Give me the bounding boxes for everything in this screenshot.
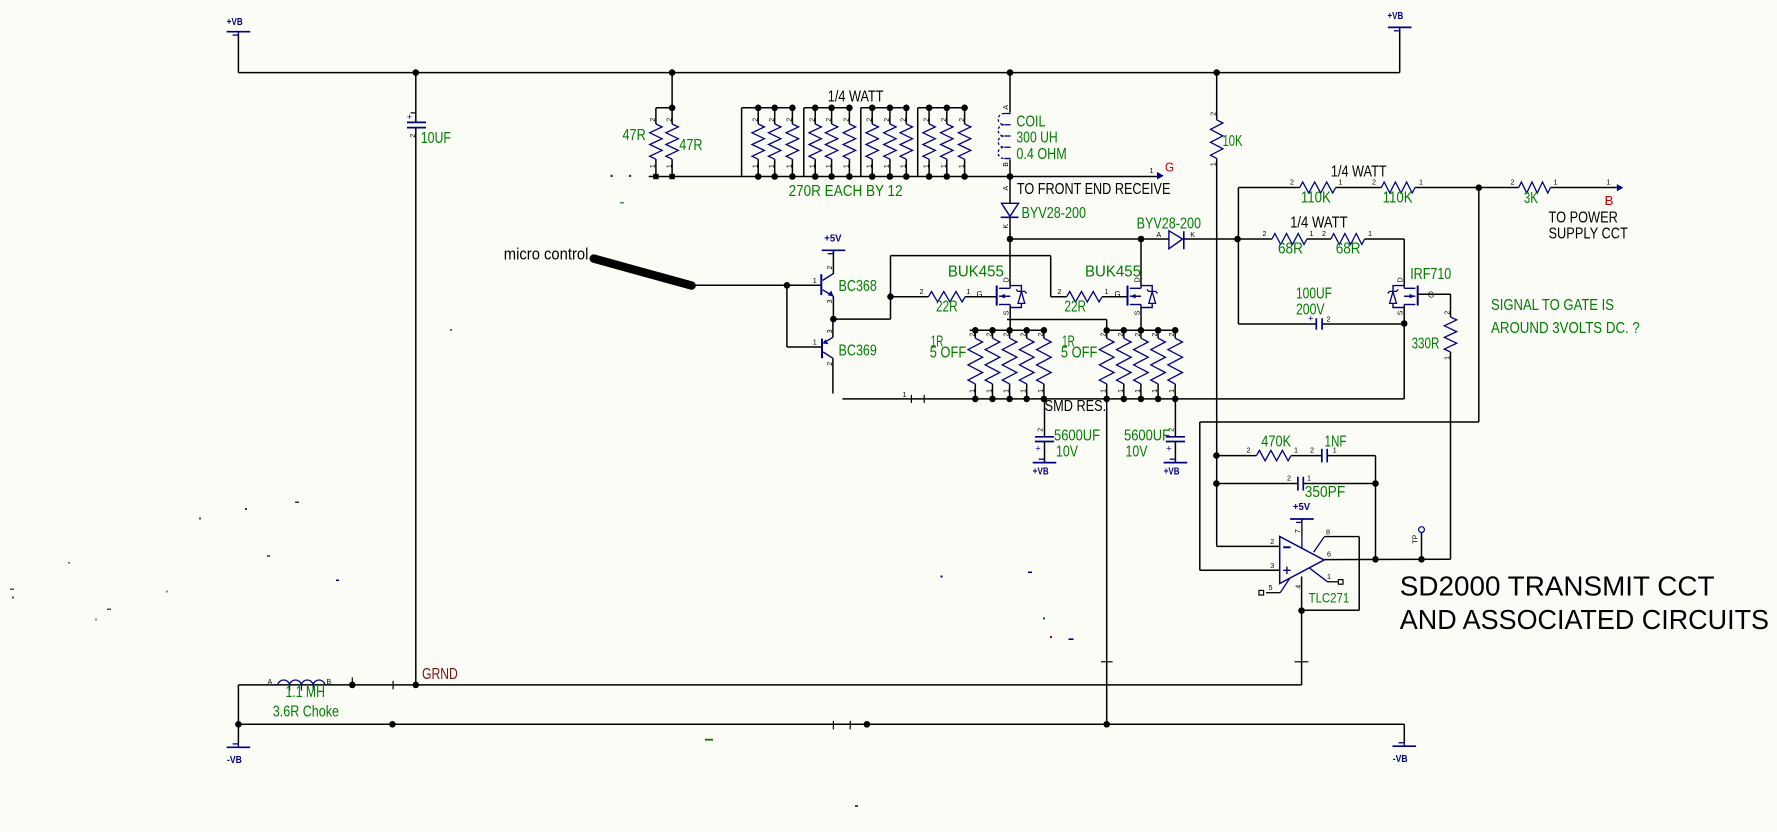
svg-text:2: 2 <box>1247 446 1251 455</box>
svg-text:1/4 WATT: 1/4 WATT <box>1331 164 1387 181</box>
svg-text:+VB: +VB <box>227 16 243 28</box>
svg-text:COIL: COIL <box>1016 114 1045 131</box>
svg-text:2: 2 <box>809 118 816 122</box>
svg-text:47R: 47R <box>679 137 702 154</box>
svg-text:AND ASSOCIATED CIRCUITS: AND ASSOCIATED CIRCUITS <box>1400 604 1769 635</box>
svg-text:1: 1 <box>666 164 673 168</box>
svg-text:3: 3 <box>827 299 834 303</box>
svg-text:1: 1 <box>752 164 759 168</box>
svg-text:+5V: +5V <box>824 233 841 245</box>
svg-text:2: 2 <box>1445 311 1452 315</box>
svg-text:2: 2 <box>1290 178 1294 187</box>
svg-text:3: 3 <box>827 329 834 333</box>
svg-text:110K: 110K <box>1301 190 1332 207</box>
svg-text:1.1 MH: 1.1 MH <box>286 684 325 701</box>
svg-text:TO FRONT END RECEIVE: TO FRONT END RECEIVE <box>1017 181 1171 198</box>
svg-text:1: 1 <box>650 164 657 168</box>
svg-text:1NF: 1NF <box>1325 434 1347 451</box>
svg-text:110K: 110K <box>1383 190 1414 207</box>
svg-text:10V: 10V <box>1126 444 1149 461</box>
svg-text:1: 1 <box>1419 178 1423 187</box>
svg-text:1: 1 <box>1038 389 1045 393</box>
svg-text:1: 1 <box>1211 162 1218 166</box>
svg-text:1: 1 <box>844 164 851 168</box>
svg-text:0.4 OHM: 0.4 OHM <box>1016 146 1066 163</box>
svg-text:2: 2 <box>650 118 657 122</box>
svg-text:1: 1 <box>1294 446 1298 455</box>
svg-text:1: 1 <box>1118 389 1125 393</box>
svg-text:2: 2 <box>959 118 966 122</box>
svg-text:2: 2 <box>920 287 924 296</box>
svg-text:3: 3 <box>1270 561 1274 570</box>
svg-text:1: 1 <box>1307 474 1311 483</box>
svg-text:2: 2 <box>941 118 948 122</box>
svg-text:IRF710: IRF710 <box>1410 266 1451 283</box>
svg-text:+VB: +VB <box>1164 465 1180 477</box>
svg-text:1: 1 <box>987 389 994 393</box>
svg-text:68R: 68R <box>1278 241 1303 258</box>
svg-text:SMD RES.: SMD RES. <box>1045 398 1107 415</box>
svg-text:1: 1 <box>1368 229 1372 238</box>
svg-text:1: 1 <box>866 164 873 168</box>
svg-text:200V: 200V <box>1296 302 1325 319</box>
svg-text:2: 2 <box>1511 178 1515 187</box>
svg-text:2: 2 <box>752 118 759 122</box>
svg-text:8: 8 <box>1326 527 1330 536</box>
svg-text:1: 1 <box>967 287 971 296</box>
svg-text:+5V: +5V <box>1293 501 1310 513</box>
svg-text:2: 2 <box>901 118 908 122</box>
svg-text:B: B <box>327 679 332 686</box>
svg-text:-VB: -VB <box>227 754 242 766</box>
svg-text:270R EACH BY 12: 270R EACH BY 12 <box>789 183 903 200</box>
svg-text:D: D <box>1004 277 1011 282</box>
svg-text:1: 1 <box>787 164 794 168</box>
svg-text:D: D <box>1398 277 1405 282</box>
svg-text:-VB: -VB <box>1393 753 1408 765</box>
svg-text:2: 2 <box>866 118 873 122</box>
svg-text:1: 1 <box>901 164 908 168</box>
svg-text:300 UH: 300 UH <box>1016 130 1057 147</box>
svg-text:1/4 WATT: 1/4 WATT <box>1290 215 1348 232</box>
svg-text:G: G <box>1115 290 1121 299</box>
svg-text:1: 1 <box>813 338 817 347</box>
svg-text:5: 5 <box>1269 583 1273 592</box>
svg-text:10UF: 10UF <box>421 130 451 147</box>
svg-text:AROUND 3VOLTS DC. ?: AROUND 3VOLTS DC. ? <box>1491 320 1640 337</box>
svg-text:1: 1 <box>1021 389 1028 393</box>
svg-text:BUK455: BUK455 <box>1085 264 1141 281</box>
svg-text:SUPPLY CCT: SUPPLY CCT <box>1549 226 1629 243</box>
svg-text:1: 1 <box>1554 178 1558 187</box>
svg-text:A: A <box>1003 186 1010 191</box>
svg-text:4: 4 <box>1295 585 1302 589</box>
svg-text:2: 2 <box>769 118 776 122</box>
svg-text:1: 1 <box>941 164 948 168</box>
svg-text:1: 1 <box>1101 389 1108 393</box>
svg-text:BYV28-200: BYV28-200 <box>1137 215 1202 232</box>
svg-text:+: + <box>1166 443 1172 454</box>
svg-text:SD2000 TRANSMIT CCT: SD2000 TRANSMIT CCT <box>1400 571 1715 602</box>
svg-text:3.6R Choke: 3.6R Choke <box>273 704 339 721</box>
svg-text:TO POWER: TO POWER <box>1549 210 1618 227</box>
svg-text:TP: TP <box>1413 534 1420 543</box>
svg-text:2: 2 <box>923 118 930 122</box>
svg-text:2: 2 <box>787 118 794 122</box>
svg-text:G: G <box>1165 160 1174 175</box>
svg-text:2: 2 <box>1263 229 1267 238</box>
svg-text:SIGNAL TO GATE IS: SIGNAL TO GATE IS <box>1491 297 1614 314</box>
svg-text:1: 1 <box>826 164 833 168</box>
svg-text:10K: 10K <box>1223 133 1243 150</box>
svg-text:1: 1 <box>959 164 966 168</box>
svg-text:2: 2 <box>1038 428 1045 432</box>
svg-text:47R: 47R <box>623 127 646 144</box>
svg-text:A: A <box>268 679 273 686</box>
svg-text:1: 1 <box>809 164 816 168</box>
svg-text:100UF: 100UF <box>1296 286 1332 303</box>
svg-text:B: B <box>1605 193 1614 208</box>
svg-text:350PF: 350PF <box>1305 484 1345 501</box>
svg-text:BUK455: BUK455 <box>948 264 1004 281</box>
svg-text:1: 1 <box>1327 572 1331 581</box>
svg-text:68R: 68R <box>1336 241 1361 258</box>
svg-text:TLC271: TLC271 <box>1309 590 1350 606</box>
svg-text:GRND: GRND <box>422 666 458 683</box>
svg-text:1: 1 <box>813 276 817 285</box>
svg-text:1: 1 <box>923 164 930 168</box>
svg-text:7: 7 <box>1293 529 1302 533</box>
svg-text:2: 2 <box>410 134 417 138</box>
svg-text:2: 2 <box>884 118 891 122</box>
svg-text:3K: 3K <box>1524 190 1538 207</box>
svg-text:+VB: +VB <box>1033 465 1049 477</box>
svg-text:2: 2 <box>826 118 833 122</box>
svg-text:1: 1 <box>1004 389 1011 393</box>
svg-text:10V: 10V <box>1056 444 1079 461</box>
svg-text:+: + <box>1035 443 1041 454</box>
svg-text:+VB: +VB <box>1388 10 1404 22</box>
svg-text:B: B <box>1003 162 1010 167</box>
svg-text:470K: 470K <box>1261 434 1291 451</box>
svg-text:1: 1 <box>1150 166 1154 175</box>
svg-text:330R: 330R <box>1412 336 1440 353</box>
svg-text:1: 1 <box>769 164 776 168</box>
svg-text:5 OFF: 5 OFF <box>930 345 967 362</box>
svg-text:6: 6 <box>1327 550 1331 559</box>
svg-text:2: 2 <box>827 362 834 366</box>
svg-text:2: 2 <box>1327 315 1331 324</box>
svg-text:1/4 WATT: 1/4 WATT <box>828 88 884 105</box>
svg-text:2: 2 <box>1270 537 1274 546</box>
svg-text:5600UF: 5600UF <box>1124 428 1170 445</box>
svg-text:BC369: BC369 <box>839 343 877 360</box>
svg-text:2: 2 <box>844 118 851 122</box>
svg-text:1: 1 <box>1607 178 1611 187</box>
svg-text:1: 1 <box>969 389 976 393</box>
svg-text:2: 2 <box>1310 446 1314 455</box>
svg-text:1: 1 <box>1169 389 1176 393</box>
svg-text:2: 2 <box>666 118 673 122</box>
svg-text:22R: 22R <box>1064 299 1086 316</box>
svg-text:1: 1 <box>1105 287 1109 296</box>
svg-text:1: 1 <box>1152 389 1159 393</box>
svg-text:2: 2 <box>1211 112 1218 116</box>
svg-text:5600UF: 5600UF <box>1054 428 1100 445</box>
svg-text:5 OFF: 5 OFF <box>1061 345 1098 362</box>
svg-text:1: 1 <box>1445 356 1452 360</box>
svg-text:2: 2 <box>827 266 834 270</box>
svg-text:BC368: BC368 <box>839 278 877 295</box>
svg-text:1: 1 <box>884 164 891 168</box>
svg-text:BYV28-200: BYV28-200 <box>1022 205 1087 222</box>
svg-text:2: 2 <box>1058 287 1062 296</box>
svg-text:micro control: micro control <box>504 245 589 264</box>
svg-text:22R: 22R <box>936 299 958 316</box>
svg-text:1: 1 <box>1135 389 1142 393</box>
svg-text:2: 2 <box>1287 474 1291 483</box>
svg-text:G: G <box>1428 290 1434 299</box>
svg-text:A: A <box>1003 105 1010 110</box>
svg-text:1: 1 <box>903 390 907 399</box>
svg-text:+: + <box>407 112 413 123</box>
svg-text:G: G <box>977 290 983 299</box>
svg-text:K: K <box>1003 224 1010 229</box>
